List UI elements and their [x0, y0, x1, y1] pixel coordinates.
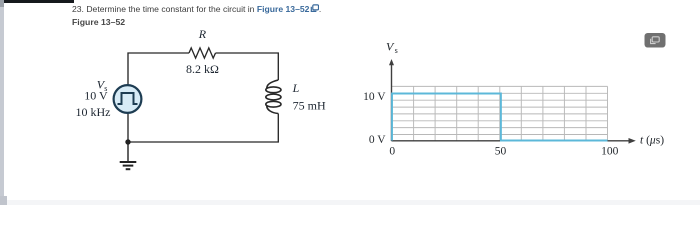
svg-text:t (μs): t (μs)	[640, 134, 664, 146]
svg-text:L: L	[292, 81, 300, 95]
svg-text:s: s	[395, 46, 398, 55]
svg-text:10 V: 10 V	[84, 88, 108, 102]
svg-text:0: 0	[389, 145, 395, 157]
svg-text:8.2 kΩ: 8.2 kΩ	[186, 62, 219, 76]
svg-text:R: R	[198, 27, 207, 41]
svg-text:10 V: 10 V	[363, 91, 386, 103]
svg-text:0 V: 0 V	[369, 134, 386, 146]
svg-text:75 mH: 75 mH	[293, 99, 326, 113]
svg-text:100: 100	[601, 145, 619, 157]
svg-text:50: 50	[495, 145, 507, 157]
svg-text:10 kHz: 10 kHz	[76, 105, 111, 119]
